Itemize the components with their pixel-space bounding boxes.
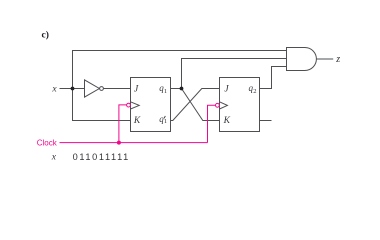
wire q1bar to J2 crossover (171, 89, 220, 121)
svg-text:1: 1 (164, 88, 167, 95)
wire x to K1 (73, 89, 131, 121)
node q1 junction (180, 87, 184, 91)
svg-text:Clock: Clock (37, 138, 58, 147)
node x junction (71, 87, 75, 91)
svg-text:2: 2 (253, 88, 256, 95)
svg-text:1: 1 (164, 118, 167, 125)
clock triangle U2 (220, 102, 228, 109)
bubble clock U2 (216, 103, 220, 107)
wire x input (60, 88, 85, 90)
svg-text:K: K (133, 116, 141, 126)
node clock junction (117, 141, 121, 145)
flip-flop U2 box (220, 78, 260, 132)
flip-flop U1 box (131, 78, 171, 132)
wire clock to U1 (119, 105, 127, 143)
wire q1 to AND rail in2 (182, 59, 287, 89)
bubble clock U1 (127, 103, 131, 107)
svg-text:x: x (51, 84, 57, 94)
wire clock to U2 (208, 105, 216, 142)
wire x to AND rail in1 (73, 51, 287, 89)
svg-text:011011111: 011011111 (73, 152, 130, 162)
inverter G1 (85, 80, 100, 97)
svg-text:c): c) (42, 30, 49, 41)
svg-text:z: z (335, 54, 340, 65)
AND gate G2 (287, 48, 317, 71)
wire clock rail (60, 142, 208, 144)
wire q2 to AND in3 (260, 67, 287, 89)
wire z output (316, 58, 333, 60)
wire q2bar stub (260, 120, 272, 122)
svg-text:K: K (223, 116, 231, 126)
wire inverter to J1 (104, 88, 131, 90)
clock triangle U1 (131, 102, 140, 109)
svg-text:x: x (51, 152, 57, 162)
wire q1 to K2 crossover (182, 89, 220, 121)
wire q1 output (171, 88, 182, 90)
